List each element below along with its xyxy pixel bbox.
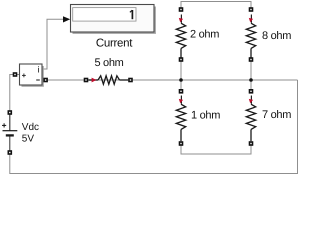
- wire: left column stub R2 bottom through node A to R1 top: [180, 60, 182, 92]
- resistor R5 left port: [84, 78, 89, 83]
- node A junction dot (181,80): [179, 78, 183, 82]
- resistor R7 bottom port: [249, 141, 254, 146]
- wire: top loop connecting R2 and R8 tops: [181, 2, 251, 10]
- resistor R8 top port: [249, 7, 254, 12]
- svg-text:i: i: [38, 64, 40, 74]
- display U1 value label "1": [130, 10, 133, 19]
- current sensor U2 left port: [13, 72, 18, 77]
- resistor R1 bottom port: [179, 141, 184, 146]
- display U1 input arrowhead: [63, 16, 70, 22]
- svg-text:Current: Current: [96, 37, 133, 49]
- resistor R2 bottom port: [179, 57, 184, 62]
- resistor R7 red current-direction arrow: [248, 96, 253, 104]
- display U1 block body: [71, 5, 156, 34]
- node B junction dot (251,80): [249, 78, 253, 82]
- resistor R7 (7 ohm, vertical right-bottom): [246, 104, 255, 141]
- wire: current measurement signal from sensor i-port to display: [42, 19, 63, 69]
- current sensor U2 plus sign: [22, 74, 26, 78]
- svg-text:2 ohm: 2 ohm: [190, 28, 219, 40]
- resistor R2 top port: [179, 7, 184, 12]
- current sensor U2 block body: [20, 64, 44, 87]
- resistor R5 red current-direction arrow: [89, 78, 97, 83]
- wire: battery positive up to current sensor left port: [10, 75, 20, 132]
- svg-text:Vdc: Vdc: [22, 122, 39, 133]
- resistor R5 (5 ohm, horizontal): [88, 76, 128, 84]
- battery V1 plus sign: [2, 123, 6, 127]
- battery V1 Vdc symbol plates: [3, 113, 18, 153]
- wire: right column stub R8 bottom through node B to R7 top: [250, 60, 252, 92]
- resistor R1 red current-direction arrow: [178, 96, 183, 104]
- svg-text:1 ohm: 1 ohm: [191, 110, 220, 122]
- resistor R2 red current-direction arrow: [178, 15, 183, 23]
- resistor R2 (2 ohm, vertical left-top): [176, 23, 185, 57]
- resistor R1 (1 ohm, vertical left-bottom): [176, 104, 185, 141]
- current sensor U2 right port: [43, 78, 48, 83]
- resistor R7 top port: [249, 89, 254, 94]
- current sensor U2 minus sign: [36, 79, 40, 81]
- resistor R1 top port: [179, 89, 184, 94]
- wire: bottom loop connecting R1 and R7 bottoms: [181, 144, 251, 155]
- wire: middle node rail from current sensor output to right rail: [46, 79, 298, 81]
- svg-text:5 ohm: 5 ohm: [94, 57, 123, 69]
- resistor R8 red current-direction arrow: [248, 15, 253, 23]
- resistor R5 right port: [128, 78, 133, 83]
- resistor R8 bottom port: [249, 57, 254, 62]
- resistor R8 (8 ohm, vertical right-top): [246, 23, 255, 57]
- svg-text:7 ohm: 7 ohm: [262, 109, 291, 121]
- svg-text:5V: 5V: [22, 133, 35, 144]
- battery V1 bottom port: [8, 150, 13, 155]
- wire: battery negative return (bottom rail + right rail up to middle node): [10, 80, 298, 174]
- svg-text:8 ohm: 8 ohm: [262, 30, 291, 42]
- battery V1 top port: [8, 110, 13, 115]
